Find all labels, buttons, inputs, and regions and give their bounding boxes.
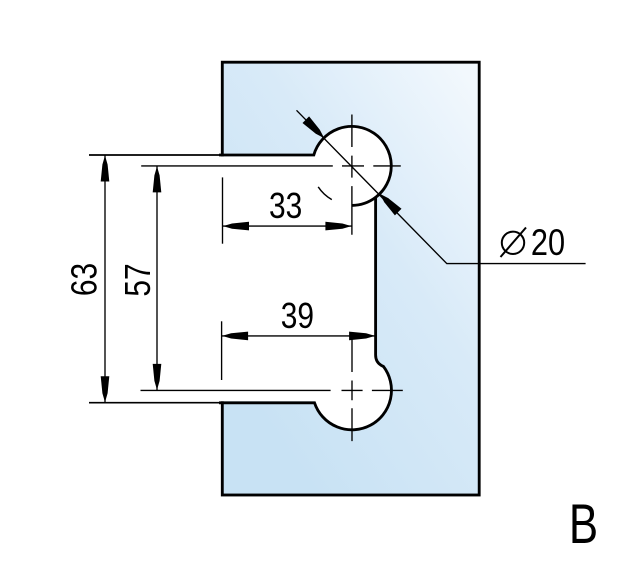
svg-text:57: 57 bbox=[118, 263, 158, 296]
arrowheads dim 39 bbox=[222, 332, 248, 341]
svg-text:20: 20 bbox=[531, 222, 565, 264]
diameter symbol bbox=[501, 228, 527, 258]
dimension line 63 bbox=[104, 155, 106, 403]
svg-text:33: 33 bbox=[269, 186, 302, 226]
svg-text:B: B bbox=[569, 493, 598, 555]
extension lines dim 63 bbox=[89, 155, 222, 403]
cutout outline bbox=[219, 126, 391, 429]
arrowheads dim 33 bbox=[223, 222, 249, 231]
centerline top hole horizontal bbox=[105, 110, 586, 441]
ghost arc lower-left of top hole bbox=[318, 187, 332, 200]
dimension line 33 bbox=[223, 225, 352, 227]
cutout white fill (notch + two holes union) bbox=[214, 128, 390, 429]
extension line dim 33 bbox=[222, 177, 224, 243]
svg-text:39: 39 bbox=[281, 296, 314, 336]
centerline bottom hole horizontal bbox=[141, 389, 403, 391]
arrowheads dim 57 bbox=[153, 166, 162, 192]
glass plate bbox=[222, 62, 479, 495]
leader line diameter bbox=[297, 110, 586, 263]
svg-text:63: 63 bbox=[65, 263, 105, 296]
centerline bottom hole vertical bbox=[351, 339, 353, 441]
dimension line 39 bbox=[222, 335, 376, 337]
dimension line 57 bbox=[156, 166, 158, 391]
leader arrowheads bbox=[303, 116, 325, 138]
arrowheads dim 63 bbox=[101, 116, 402, 402]
extension line dim 39 bbox=[221, 321, 223, 380]
centerline top hole vertical bbox=[351, 115, 353, 235]
top hole lower-right arc continuation bbox=[352, 197, 376, 205]
